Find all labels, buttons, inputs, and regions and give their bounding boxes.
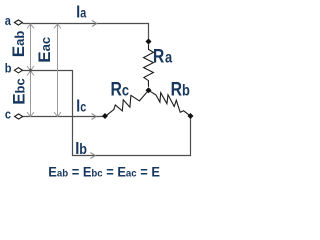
junction node Rc left [102,113,108,119]
terminal b (open diamond) [14,68,22,73]
terminal c (open diamond) [15,114,23,119]
svg-text:Rb: Rb [171,78,191,100]
svg-text:Ic: Ic [76,97,86,116]
svg-text:Eab: Eab [9,31,28,58]
svg-text:Eab = Ebc = Eac = E: Eab = Ebc = Eac = E [48,164,160,180]
svg-text:Ia: Ia [76,3,86,22]
junction node Ra top [146,38,152,44]
svg-text:Ebc: Ebc [9,78,28,105]
voltage arrow Eac (between wire a and wire c) [54,24,61,117]
wire phase a (top horizontal + down to Ra) [23,24,149,39]
resistor Rc [106,90,149,116]
junction node wye center [146,87,152,93]
current arrow Ia (on wire a) [92,21,97,27]
resistor Rb [149,90,191,115]
svg-text:a: a [5,13,11,28]
svg-text:c: c [5,107,11,122]
current arrow Ib (on bottom wire) [91,153,96,159]
wire phase b (to the left, down, along bottom, up right side) [23,71,191,156]
voltage arrow Eab (double headed, between wire a and wire b) [27,24,34,71]
svg-text:Ib: Ib [75,139,87,158]
junction node Rb right [188,113,194,119]
wire phase c [23,116,106,118]
svg-text:Ra: Ra [153,45,172,67]
junction dot at Eab/Ebc arrow tips on wire b [29,69,32,72]
svg-text:Eac: Eac [35,37,54,63]
current arrow Ic (on wire c) [92,114,97,120]
resistor Ra [144,45,154,87]
terminal a (open diamond) [14,20,22,25]
voltage arrow Ebc (between wire b and wire c) [27,71,34,117]
svg-text:Rc: Rc [111,78,130,100]
svg-text:b: b [5,61,12,76]
